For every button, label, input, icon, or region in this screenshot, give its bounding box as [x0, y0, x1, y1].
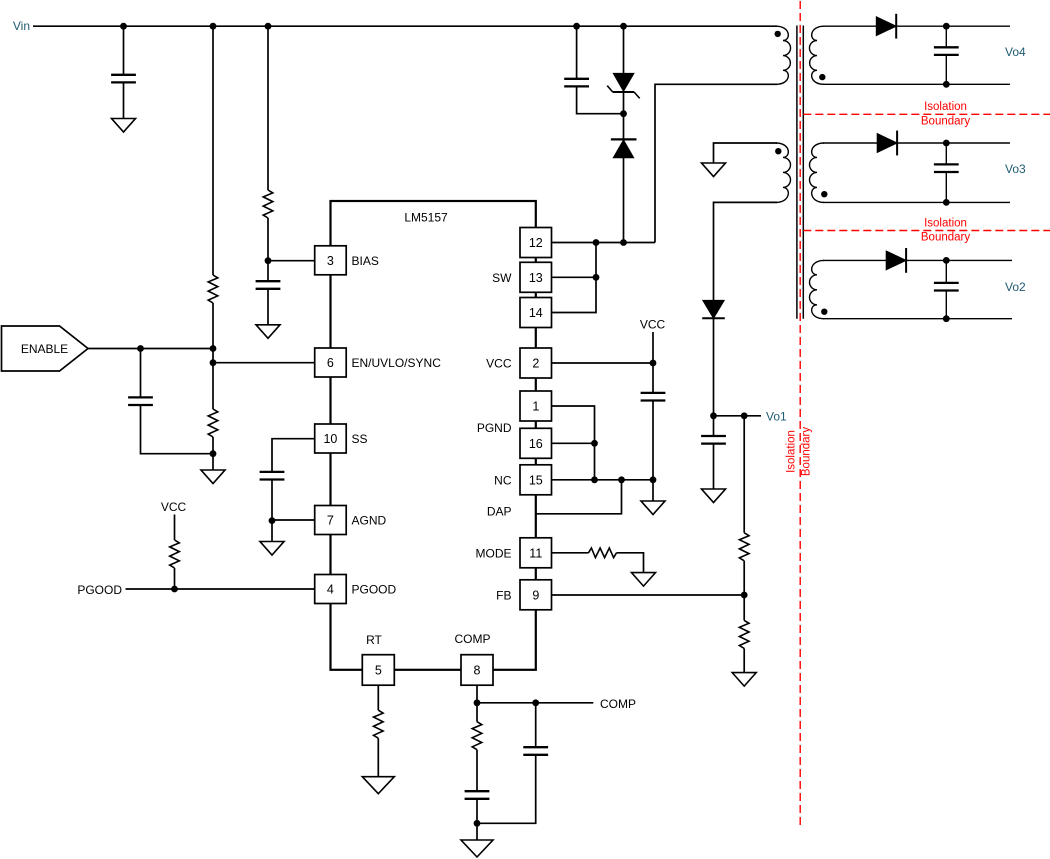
svg-text:Isolation: Isolation — [924, 101, 967, 113]
wire SS pin — [272, 439, 315, 472]
svg-text:PGOOD: PGOOD — [77, 583, 122, 597]
wire FB divider lower — [743, 648, 745, 672]
svg-text:VCC: VCC — [486, 357, 512, 371]
junction COMP cap branch — [532, 699, 539, 706]
pin 12 SW — [520, 228, 552, 258]
wire input cap top — [123, 26, 125, 74]
resistor R_PGOOD — [170, 540, 180, 568]
wire ENABLE to EN node — [88, 348, 213, 350]
transformer core — [797, 26, 803, 319]
svg-text:Isolation: Isolation — [786, 430, 798, 473]
diode D_VO4 — [876, 14, 896, 39]
junction SW pins tie — [593, 239, 600, 246]
capacitor C_CLAMP — [564, 79, 589, 87]
svg-text:Vo4: Vo4 — [1005, 45, 1026, 59]
pin 4 PGOOD — [315, 575, 397, 604]
wire PGOOD resistor bottom — [174, 568, 176, 589]
ground BIAS cap — [256, 325, 280, 339]
junction rail at clamp cap — [573, 23, 580, 30]
svg-text:COMP: COMP — [455, 632, 491, 646]
wire VCC stub — [174, 515, 176, 541]
junction Vo4 cap top — [943, 23, 950, 30]
resistor R_UVLO_BOT — [208, 409, 218, 437]
wire SW to transformer — [655, 84, 777, 242]
pin 1 PGND — [520, 391, 552, 421]
wire BIAS cap bottom — [267, 290, 269, 325]
pin 6 EN/UVLO/SYNC — [315, 348, 441, 377]
svg-text:Boundary: Boundary — [921, 232, 970, 244]
wire UVLO divider middle — [212, 303, 214, 409]
svg-text:6: 6 — [327, 356, 334, 370]
wire AGND pin — [272, 519, 315, 521]
transformer secondary winding Vo3 — [810, 143, 824, 202]
wire NC pin 15 — [552, 479, 654, 481]
wire FB node — [743, 561, 745, 621]
junction PGOOD pull-up — [171, 586, 178, 593]
diode D_VO1 (down) — [702, 300, 725, 318]
wire SW pin 13 — [552, 276, 597, 278]
capacitor C_SS — [260, 472, 285, 480]
wire Vo2 bottom — [823, 318, 1012, 320]
phase dot secondary Vo2 — [821, 309, 827, 315]
pin 10 SS — [315, 424, 368, 453]
svg-text:8: 8 — [474, 664, 481, 678]
diode D_VO3 — [877, 131, 897, 156]
wire SW pin 14 — [552, 243, 597, 313]
wire clamp diode to TVS — [623, 92, 625, 139]
wire Vo2 cap leads — [945, 260, 947, 282]
junction Vo3 cap top — [943, 140, 950, 147]
capacitor C_VO2 — [934, 283, 959, 291]
wire BIAS branch lower — [267, 218, 269, 281]
wire SW pin 12 — [552, 242, 656, 244]
capacitor C_IN — [111, 75, 136, 83]
ground primary 2 — [702, 163, 726, 177]
junction Vo4 cap bottom — [943, 81, 950, 88]
phase dot secondary Vo3 — [821, 191, 827, 197]
wire UVLO divider upper — [212, 26, 214, 275]
wire DAP — [536, 480, 622, 514]
junction VCC node — [650, 360, 657, 367]
svg-text:Vin: Vin — [13, 19, 30, 33]
resistor R_UVLO_TOP — [208, 275, 218, 303]
svg-text:AGND: AGND — [352, 514, 387, 528]
wire MODE pin — [552, 552, 589, 554]
wire Vo4 cap leads — [945, 26, 947, 46]
junction ENABLE cap tap — [137, 345, 144, 352]
junction COMP node — [474, 699, 481, 706]
junction ENABLE wire — [210, 345, 217, 352]
wire COMP RC bottom — [476, 798, 478, 840]
wire ENABLE cap bottom — [141, 406, 214, 454]
wire BIAS pin — [268, 260, 315, 262]
wire RT pin down — [377, 685, 379, 710]
svg-text:13: 13 — [529, 271, 543, 285]
ground AGND — [260, 542, 284, 556]
wire primary 2 top to ground — [714, 143, 778, 163]
junction Vo3 cap bottom — [943, 199, 950, 206]
diode D_CLAMP (up) — [611, 139, 637, 157]
pin 7 AGND — [315, 506, 387, 535]
svg-text:2: 2 — [532, 357, 539, 371]
junction EN pin wire — [210, 359, 217, 366]
junction rail at BIAS resistor — [265, 23, 272, 30]
junction Vo1 divider — [741, 412, 748, 419]
junction Vo2 cap top — [943, 257, 950, 264]
wire BIAS branch upper — [267, 26, 269, 190]
svg-text:1: 1 — [532, 400, 539, 414]
op-amp/regulator IC U1 LM5157 outline — [331, 201, 536, 670]
isolation boundary label vertical — [786, 427, 813, 476]
wire input cap bottom — [123, 83, 125, 118]
capacitor C_EN — [128, 397, 153, 405]
wire MODE resistor to ground — [617, 553, 644, 573]
wire clamp cap top — [576, 26, 578, 78]
transformer T2 primary winding — [776, 143, 791, 202]
junction SW clamp diode — [620, 239, 627, 246]
svg-text:Vo3: Vo3 — [1005, 162, 1026, 176]
wire clamp diode to SW — [623, 158, 625, 243]
svg-text:7: 7 — [327, 514, 334, 528]
svg-text:4: 4 — [327, 583, 334, 597]
junction pin15 tie — [591, 476, 598, 483]
wire primary 2 bottom to Vo1 diode — [714, 202, 778, 300]
svg-text:NC: NC — [494, 473, 512, 487]
svg-text:MODE: MODE — [476, 546, 512, 560]
phase dot primary 2 — [775, 148, 781, 154]
wire VCC cap bottom — [652, 400, 654, 501]
svg-text:Boundary: Boundary — [921, 115, 970, 127]
wire COMP net right — [477, 702, 593, 704]
wire ENABLE cap top — [140, 349, 142, 397]
wire Vo2 top — [823, 259, 1012, 261]
capacitor C_COMP2 — [523, 747, 548, 755]
pin 3 BIAS — [315, 246, 379, 275]
svg-text:BIAS: BIAS — [352, 254, 379, 268]
pin 13 SW — [492, 262, 551, 292]
svg-text:SW: SW — [492, 271, 512, 285]
ENABLE input flag — [2, 326, 89, 371]
wire COMP pin down — [476, 685, 478, 722]
ground VCC cap — [641, 501, 665, 515]
junction pin16 tie — [591, 440, 598, 447]
wire COMP RC middle — [476, 750, 478, 791]
svg-text:9: 9 — [532, 588, 539, 602]
phase dot primary 1 — [775, 31, 781, 37]
wire TVS to rail — [623, 26, 625, 73]
resistor R_MODE — [589, 548, 617, 558]
wire COMP hf cap bottom — [477, 754, 536, 823]
ground MODE — [632, 573, 656, 587]
wire Vo1 divider upper — [743, 416, 745, 533]
pin 5 RT — [362, 633, 394, 685]
wire Vin rail — [33, 25, 777, 27]
pin 2 VCC — [486, 348, 551, 378]
svg-text:PGND: PGND — [477, 421, 512, 435]
isolation boundary vertical dashed line — [799, 1, 801, 825]
junction COMP ground node — [474, 820, 481, 827]
pin 14 SW — [520, 298, 552, 328]
svg-text:14: 14 — [529, 306, 543, 320]
svg-text:VCC: VCC — [640, 318, 666, 332]
svg-text:RT: RT — [366, 633, 382, 647]
wire PGND pin 1 — [552, 406, 595, 480]
svg-text:Boundary: Boundary — [801, 427, 813, 476]
svg-text:10: 10 — [323, 432, 337, 446]
capacitor C_VO3 — [934, 164, 959, 172]
pin 8 COMP — [455, 632, 494, 685]
svg-text:5: 5 — [375, 664, 382, 678]
svg-text:3: 3 — [327, 254, 334, 268]
isolation boundary dashed line Vo3/Vo2 — [803, 230, 1050, 232]
isolation boundary label Vo4/Vo3 — [921, 101, 970, 127]
pin 15 NC — [494, 465, 551, 495]
ground input cap — [112, 119, 136, 133]
ground FB divider — [732, 673, 756, 687]
capacitor C_COMP1 — [465, 791, 490, 799]
svg-text:Vo1: Vo1 — [766, 409, 787, 423]
junction pin13 tie — [593, 274, 600, 281]
wire Vo4 bottom — [823, 83, 1010, 85]
wire VCC stub down — [652, 332, 654, 392]
junction rail at UVLO divider — [210, 23, 217, 30]
diode D_VO2 — [886, 248, 906, 273]
svg-text:PGOOD: PGOOD — [352, 583, 397, 597]
wire RT resistor to ground — [377, 738, 379, 777]
wire SS cap bottom — [271, 479, 273, 541]
svg-text:11: 11 — [529, 546, 542, 560]
junction rail at TVS — [620, 23, 627, 30]
svg-text:15: 15 — [529, 473, 543, 487]
wire clamp cap bottom — [577, 86, 624, 114]
zener TVS D_TVS (down) — [607, 73, 640, 98]
ground RT — [362, 777, 394, 794]
svg-text:12: 12 — [529, 236, 543, 250]
svg-text:COMP: COMP — [600, 697, 636, 711]
resistor R_RT — [374, 710, 384, 738]
ground COMP — [461, 840, 493, 857]
svg-text:LM5157: LM5157 — [404, 211, 448, 225]
wire EN pin — [213, 362, 315, 364]
resistor R_FB_TOP — [739, 533, 749, 561]
wire Vo3 top — [823, 142, 1010, 144]
junction rail at input cap — [120, 23, 127, 30]
junction AGND node — [269, 517, 276, 524]
svg-text:ENABLE: ENABLE — [21, 342, 68, 356]
ground Vo1 cap — [702, 489, 726, 503]
svg-text:Vo2: Vo2 — [1005, 280, 1026, 294]
wire UVLO divider lower — [212, 437, 214, 470]
resistor R_COMP — [472, 722, 482, 750]
junction FB node — [741, 592, 748, 599]
pin 9 FB — [496, 580, 551, 610]
junction Vo1 cap — [710, 412, 717, 419]
wire Vo1 node — [714, 415, 762, 417]
resistor R_FB_BOT — [739, 620, 749, 648]
transformer secondary winding Vo4 — [809, 26, 824, 84]
capacitor C_VO1 — [701, 436, 726, 444]
svg-text:EN/UVLO/SYNC: EN/UVLO/SYNC — [352, 356, 442, 370]
junction EN filter cap return — [210, 450, 217, 457]
junction clamp RC node — [620, 110, 627, 117]
isolation boundary label Vo3/Vo2 — [921, 217, 970, 243]
junction BIAS node — [265, 257, 272, 264]
svg-text:DAP: DAP — [487, 505, 512, 519]
pin 11 MODE — [476, 538, 552, 568]
wire VCC pin 2 — [552, 362, 654, 364]
svg-text:Isolation: Isolation — [924, 217, 967, 229]
ground UVLO divider — [201, 470, 225, 484]
junction VCC cap to PGND — [650, 476, 657, 483]
junction DAP tie — [618, 476, 625, 483]
svg-text:SS: SS — [352, 432, 368, 446]
pin 16 PGND — [477, 421, 552, 458]
wire Vo1 diode to node — [713, 318, 715, 435]
transformer secondary winding Vo2 — [810, 260, 824, 318]
svg-text:FB: FB — [496, 588, 511, 602]
resistor R_BIAS — [263, 190, 273, 218]
wire Vo3 cap leads — [945, 143, 947, 164]
capacitor C_VCC — [641, 393, 666, 401]
junction Vo2 cap bottom — [943, 315, 950, 322]
svg-text:VCC: VCC — [161, 500, 187, 514]
capacitor C_BIAS — [256, 281, 281, 289]
isolation boundary dashed line Vo4/Vo3 — [803, 113, 1050, 115]
transformer T1 primary winding — [776, 26, 791, 84]
svg-text:16: 16 — [529, 437, 543, 451]
wire PGOOD pin — [126, 588, 315, 590]
capacitor C_VO4 — [934, 47, 959, 55]
wire Vo3 bottom — [823, 201, 1010, 203]
wire Vo1 cap bottom — [713, 443, 715, 489]
wire Vo4 top — [823, 25, 1010, 27]
wire COMP hf cap top — [535, 703, 537, 747]
wire FB pin — [552, 594, 745, 596]
phase dot secondary Vo4 — [819, 74, 825, 80]
wire PGND pin 16 — [552, 442, 595, 444]
